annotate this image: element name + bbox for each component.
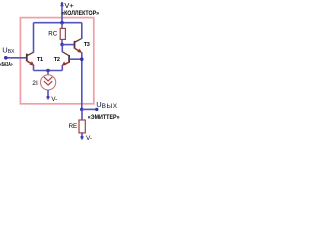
- output stub wire: [82, 108, 97, 110]
- resistor RC: [60, 23, 65, 45]
- wire: T2 collector up to node: [61, 45, 63, 53]
- wire: top rail: [34, 22, 82, 24]
- wire: T1 collector drop: [33, 23, 35, 53]
- transistor T2 (mirrored): [62, 52, 70, 66]
- svg-text:RE: RE: [69, 123, 78, 130]
- resistor RE: [79, 109, 85, 136]
- transistor T1: [27, 52, 35, 65]
- wire: T1 emitter down: [33, 65, 35, 71]
- output terminal node: [95, 108, 98, 111]
- svg-text:«БАЗА»: «БАЗА»: [0, 62, 13, 68]
- transistor T3: [75, 39, 83, 53]
- svg-text:V+: V+: [64, 1, 74, 10]
- svg-text:V-: V-: [51, 96, 57, 103]
- node: tail junction: [46, 69, 50, 73]
- svg-text:Т2: Т2: [54, 57, 60, 63]
- V- arrow below RE: [81, 136, 84, 139]
- current source 2I: [41, 75, 56, 90]
- svg-text:V-: V-: [86, 135, 92, 142]
- background: [0, 0, 120, 147]
- node: feedback junction: [80, 57, 84, 61]
- svg-text:RC: RC: [48, 30, 57, 37]
- svg-text:2I: 2I: [32, 80, 38, 87]
- wire: to current source: [47, 71, 49, 75]
- wire: T2 emitter down: [61, 65, 63, 70]
- node: output junction: [80, 108, 84, 112]
- input wire (base of T1): [6, 57, 26, 59]
- svg-text:«КОЛЛЕКТОР»: «КОЛЛЕКТОР»: [61, 10, 99, 17]
- wire: node to T3 base: [62, 44, 74, 46]
- op-amp boundary box: [20, 18, 93, 104]
- V- arrow below current source: [46, 90, 49, 100]
- svg-text:Т3: Т3: [84, 42, 90, 48]
- node: V+ / RC junction: [60, 21, 64, 25]
- V+ terminal arrow: [60, 2, 64, 23]
- wire: T2 base to output feedback: [70, 58, 82, 60]
- input terminal node: [4, 56, 8, 60]
- wire: T3 emitter down (output column): [81, 52, 83, 109]
- common emitter wire: [34, 70, 63, 72]
- wire: T3 collector up: [81, 23, 83, 39]
- svg-text:Т1: Т1: [37, 57, 43, 63]
- node: RC bottom / T2 collector / T3 base: [60, 43, 64, 47]
- svg-text:«ЭМИТТЕР»: «ЭМИТТЕР»: [88, 114, 120, 121]
